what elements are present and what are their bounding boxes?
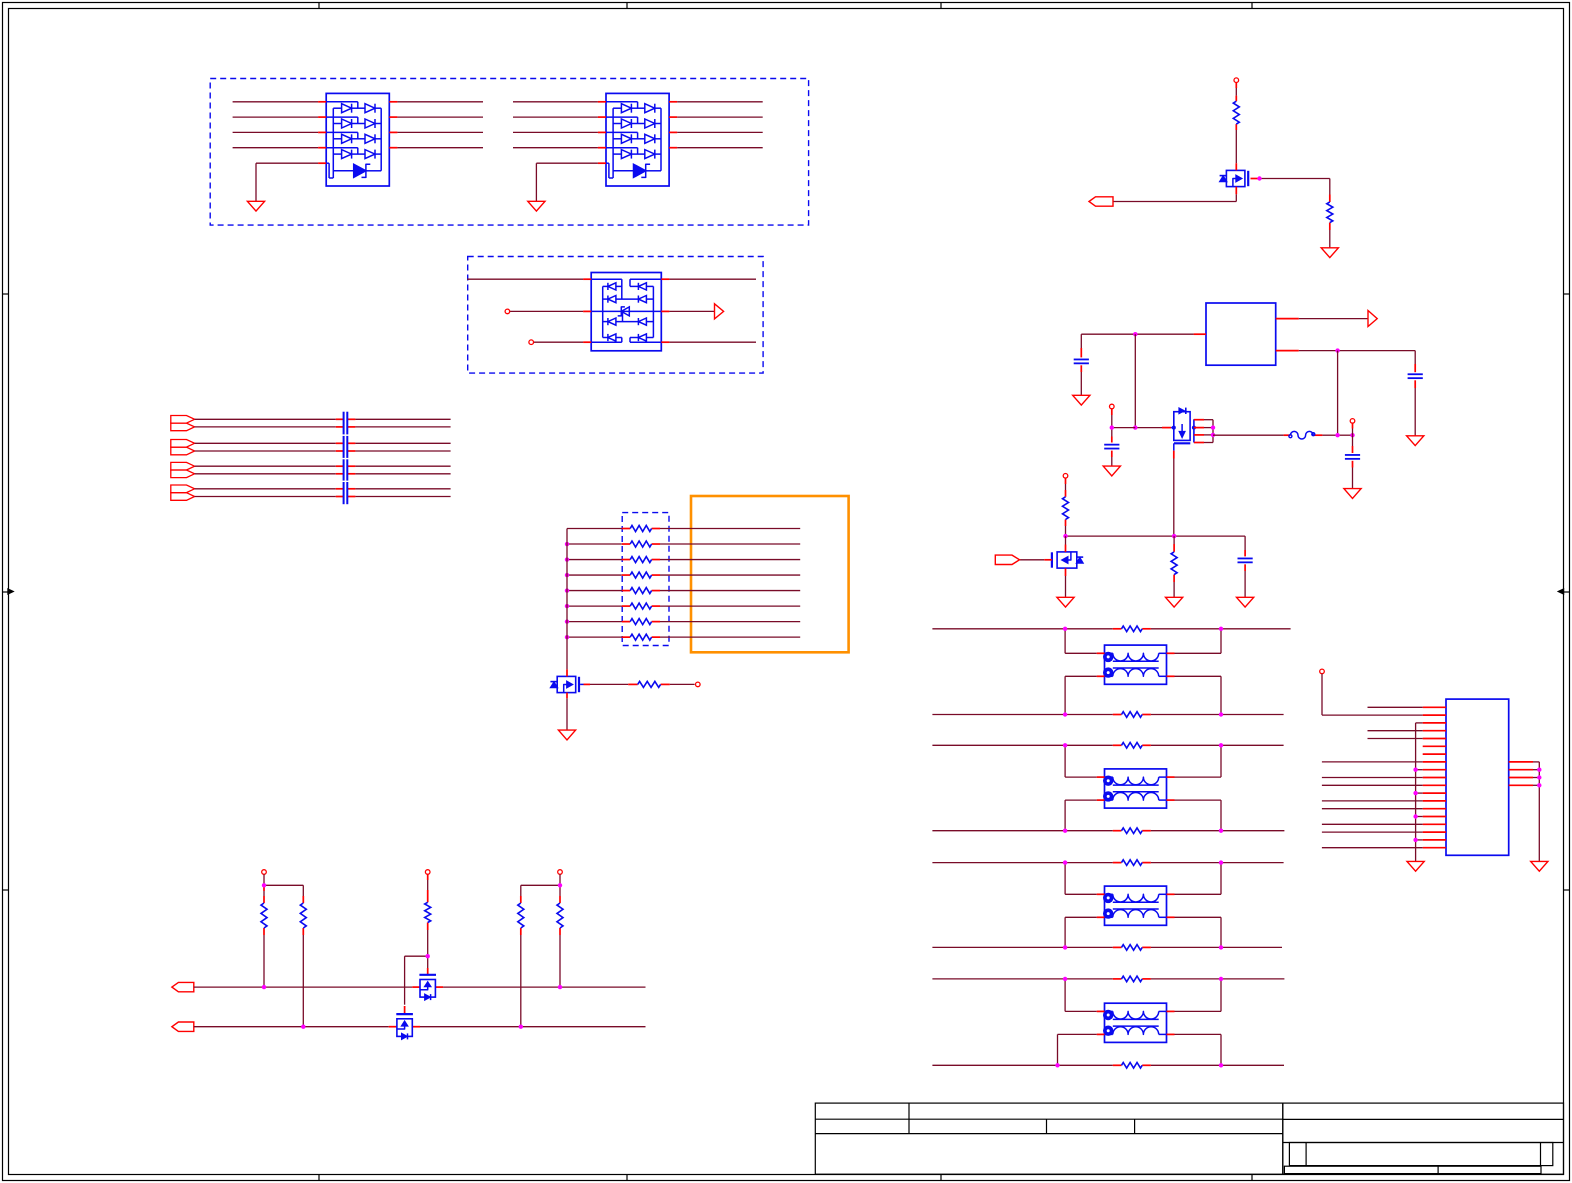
ground symbol below R6: [1166, 597, 1183, 607]
resistor R4 (pull-up): [1063, 497, 1069, 520]
jumper block pins at Q3 output: [1194, 419, 1213, 442]
junction dot at Q3 node: [1133, 425, 1137, 429]
junction dots right pull-ups: [519, 883, 563, 1029]
MOSFET Q3 (power switch): [1174, 408, 1191, 444]
common-mode choke T2: [1103, 769, 1167, 808]
junction dot at Q4 drain: [1063, 534, 1067, 538]
wires: R6 to ground: [1173, 536, 1175, 597]
resistor R16: [300, 903, 306, 928]
wires: T2 connections: [1065, 745, 1221, 830]
pin circle left pull-up supply: [262, 870, 267, 875]
wires: T3 connections: [1065, 863, 1221, 948]
wires: I2C SDA and SCL lines: [194, 987, 646, 1027]
ESD diode array U1: [326, 93, 389, 186]
wires: right pull-up pair: [521, 874, 560, 1026]
wires: pull-up node: [1066, 478, 1246, 536]
junction dots at jumper block: [1211, 425, 1215, 437]
wires: left pull-up pair: [264, 874, 303, 1026]
ground symbol at U1: [247, 201, 264, 211]
junction dot at C4 tap: [1350, 433, 1354, 437]
MOSFET Q6 (SCL level shifter): [396, 1014, 413, 1039]
J2 left pin stubs: [1423, 707, 1446, 847]
junction dot R3 right: [1335, 433, 1339, 437]
junction dot at Q1 gate: [1257, 176, 1261, 180]
dashed enclosure box 2 (TVS bridge section): [468, 257, 763, 374]
dashed enclosure box 1 (ESD section): [210, 79, 808, 226]
resistor R6: [1171, 552, 1177, 575]
series capacitor bank plates (4 pair capacitors): [344, 412, 348, 505]
wires: C3 branch: [1112, 409, 1136, 466]
pin circle right of R5: [696, 682, 701, 687]
capacitor C1: [1074, 359, 1089, 363]
common-mode choke T3: [1103, 886, 1167, 925]
junction dot at C3 branch: [1110, 425, 1114, 429]
wires: J2 left signal wires: [1322, 707, 1423, 847]
junction dot at gate net: [1172, 534, 1176, 538]
wires: Q2 pins: [567, 669, 695, 730]
off-page arrow into Q4 gate: [995, 555, 1019, 564]
off-page arrow left (Q1 source): [1089, 197, 1113, 206]
bus junction dots on RN1 left rail: [565, 542, 569, 640]
resistor R17 (gate bias): [425, 902, 431, 922]
pin circle middle (gate bias supply): [425, 870, 430, 875]
wires: choke section horizontal rows: [932, 629, 1290, 1066]
resistor R19: [557, 903, 563, 928]
wires: T4 connections: [1058, 979, 1222, 1065]
resistor R18: [518, 903, 524, 928]
wires: Q1 gate and source nets: [1113, 163, 1330, 248]
wires: differential pair bus lines: [195, 419, 451, 496]
capacitor C2: [1408, 374, 1423, 378]
wire: Q4 gate: [1020, 559, 1052, 561]
resistor R1 (top pull-up): [1233, 101, 1239, 124]
wires: J2 right shield pins: [1509, 762, 1540, 862]
resistor R15: [261, 903, 267, 928]
pin circle right pull-up supply: [558, 870, 563, 875]
off-page arrow (regulator output): [1368, 311, 1377, 327]
pin circle above J2: [1320, 669, 1325, 674]
wires: pin circle to J2 pin 2: [1322, 674, 1423, 715]
wires: node to Q3 source: [1135, 334, 1174, 427]
junction dots T1: [1063, 627, 1223, 717]
junction dots T2: [1063, 743, 1223, 833]
pin circle at C4 tap: [1350, 419, 1355, 424]
ground symbol below J2 shield: [1531, 861, 1548, 871]
junction dots on J2 ground bus: [1413, 768, 1417, 843]
ground symbol below C3: [1103, 466, 1120, 476]
junction dot regulator output: [1335, 348, 1339, 352]
MOSFET Q1 (top right): [1220, 170, 1249, 186]
junction dots left pull-ups: [262, 883, 306, 1029]
wires: C5 to ground: [1244, 536, 1246, 597]
ESD diode array U2: [606, 93, 669, 186]
series resistors R7-R14 on choke rows: [1122, 626, 1143, 1068]
wire: Q3 gate down to control node: [1173, 443, 1175, 536]
wires: U1 input/output lines and ground wire: [233, 102, 483, 202]
wires: U2 input/output lines and ground wire: [513, 102, 763, 202]
wire: J2 ground bus: [1416, 723, 1423, 862]
resistor network RN1 resistors: [630, 526, 651, 641]
resistor R5 (Q2 gate): [638, 681, 661, 687]
no-connect pin circle at D1 middle input: [505, 309, 510, 314]
ground symbol below C4: [1344, 489, 1361, 499]
wires: Q4 pins: [1065, 536, 1067, 597]
orange connector outline J1: [691, 496, 849, 652]
common-mode choke T1: [1103, 645, 1167, 684]
wires: gate bias network: [405, 874, 428, 1014]
MOSFET Q2 (resistor-network pull control): [550, 676, 579, 692]
pin circle (pull-up R4 supply): [1063, 474, 1068, 479]
ground symbol below C2: [1407, 436, 1424, 446]
wires: Q3 output through R3: [1213, 351, 1353, 436]
connector J2 box: [1446, 699, 1509, 855]
wires: input capacitor C1: [1080, 334, 1082, 395]
capacitor C3: [1104, 445, 1119, 449]
TVS bridge array D1: [591, 273, 661, 351]
bus input port arrows (4 differential pairs): [171, 416, 195, 501]
wire: RN1 left rail: [566, 529, 568, 670]
ground symbol below R2: [1321, 248, 1338, 258]
junction dots at Q3 pins: [1172, 426, 1196, 430]
ground symbol below C5: [1237, 597, 1254, 607]
resistor R2 (Q1 gate to ground): [1327, 202, 1333, 223]
pin circle (Q3 aux supply): [1110, 404, 1115, 409]
common-mode choke T4: [1103, 1003, 1167, 1042]
ground symbol below J2 bus: [1407, 861, 1424, 871]
off-page arrows (I2C SDA/SCL): [172, 982, 194, 1031]
title block right table: [1283, 1103, 1564, 1174]
wires: R1 to Q1 drain: [1235, 83, 1237, 164]
dashed enclosure box 3 (termination resistor network RN1): [622, 513, 669, 646]
junction dots T3: [1063, 860, 1223, 949]
wires: regulator pins: [1081, 319, 1415, 351]
ground symbol below Q4: [1057, 597, 1074, 607]
ground symbol below Q2: [558, 730, 575, 740]
junction dot regulator input: [1133, 332, 1137, 336]
ferrite bead FB1 (output): [1289, 431, 1315, 439]
wires: C4 branch: [1352, 423, 1354, 488]
wires: resistor network rows into J1: [567, 529, 800, 638]
off-page arrow right of D1: [715, 304, 724, 319]
wires: TVS bridge pins: [467, 279, 756, 342]
pin circle top (Q1 drain pull-up supply): [1234, 78, 1239, 83]
wires: output capacitor C2: [1414, 351, 1416, 436]
ground symbol at U2: [528, 201, 545, 211]
capacitor C5: [1238, 558, 1253, 562]
MOSFET Q4 (enable): [1052, 552, 1083, 568]
no-connect pin circle at D1 lower input: [529, 340, 534, 345]
MOSFET Q5 (SDA level shifter): [419, 975, 436, 1000]
capacitor C4: [1345, 455, 1360, 459]
junction dot gate bias node: [426, 954, 430, 958]
regulator U3 box: [1206, 303, 1276, 365]
junction dots T4: [1055, 977, 1223, 1068]
title block left table: [815, 1103, 1283, 1174]
junction dots J2 right: [1537, 768, 1541, 788]
ground symbol below C1: [1073, 395, 1090, 405]
wires: T1 connections: [1065, 629, 1221, 715]
